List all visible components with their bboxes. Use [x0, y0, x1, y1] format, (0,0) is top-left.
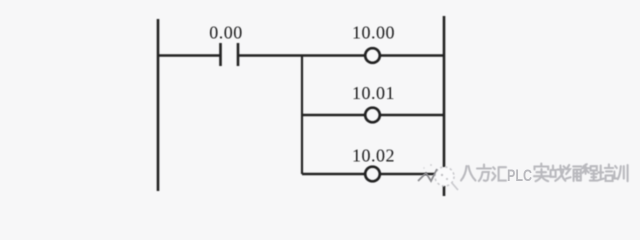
watermark text: pei [598, 164, 613, 181]
watermark text: cheng [582, 164, 597, 180]
coil 10.02 [365, 167, 380, 182]
wire: rung 2, coil 10.01 to right rail [380, 114, 444, 117]
wire: rung 1, rail to contact [158, 54, 220, 57]
svg-text:10.02: 10.02 [352, 146, 395, 166]
wire: rung 1, coil 10.00 to right rail [380, 54, 444, 57]
wire: rung 1, contact to coil 10.00 [238, 54, 365, 57]
coil 10.01 [365, 108, 380, 123]
svg-text:0.00: 0.00 [209, 23, 243, 43]
wire: rung 3, coil 10.02 to right rail [380, 173, 444, 176]
watermark text: eight [461, 165, 506, 182]
contact 0.00 left bar [219, 43, 222, 66]
left power rail [157, 19, 160, 191]
watermark text: bian [566, 165, 581, 181]
watermark logo [418, 164, 458, 190]
wire: rung 3, branch to coil 10.02 [302, 173, 365, 176]
svg-text:10.01: 10.01 [352, 83, 395, 103]
contact 0.00 right bar [237, 43, 240, 66]
watermark text: PLC [507, 166, 532, 185]
watermark text: zhan [551, 166, 566, 181]
watermark text: xun [614, 165, 627, 181]
coil 10.00 [365, 48, 380, 63]
watermark text: hui [492, 167, 506, 180]
watermark text: fang [477, 165, 491, 182]
svg-text:PLC: PLC [507, 166, 532, 185]
wire: rung 2, branch to coil 10.01 [302, 114, 365, 117]
svg-text:10.00: 10.00 [352, 23, 395, 43]
watermark text: shi [534, 164, 549, 182]
right power rail [443, 16, 446, 196]
wire: branch vertical at node [301, 56, 303, 175]
